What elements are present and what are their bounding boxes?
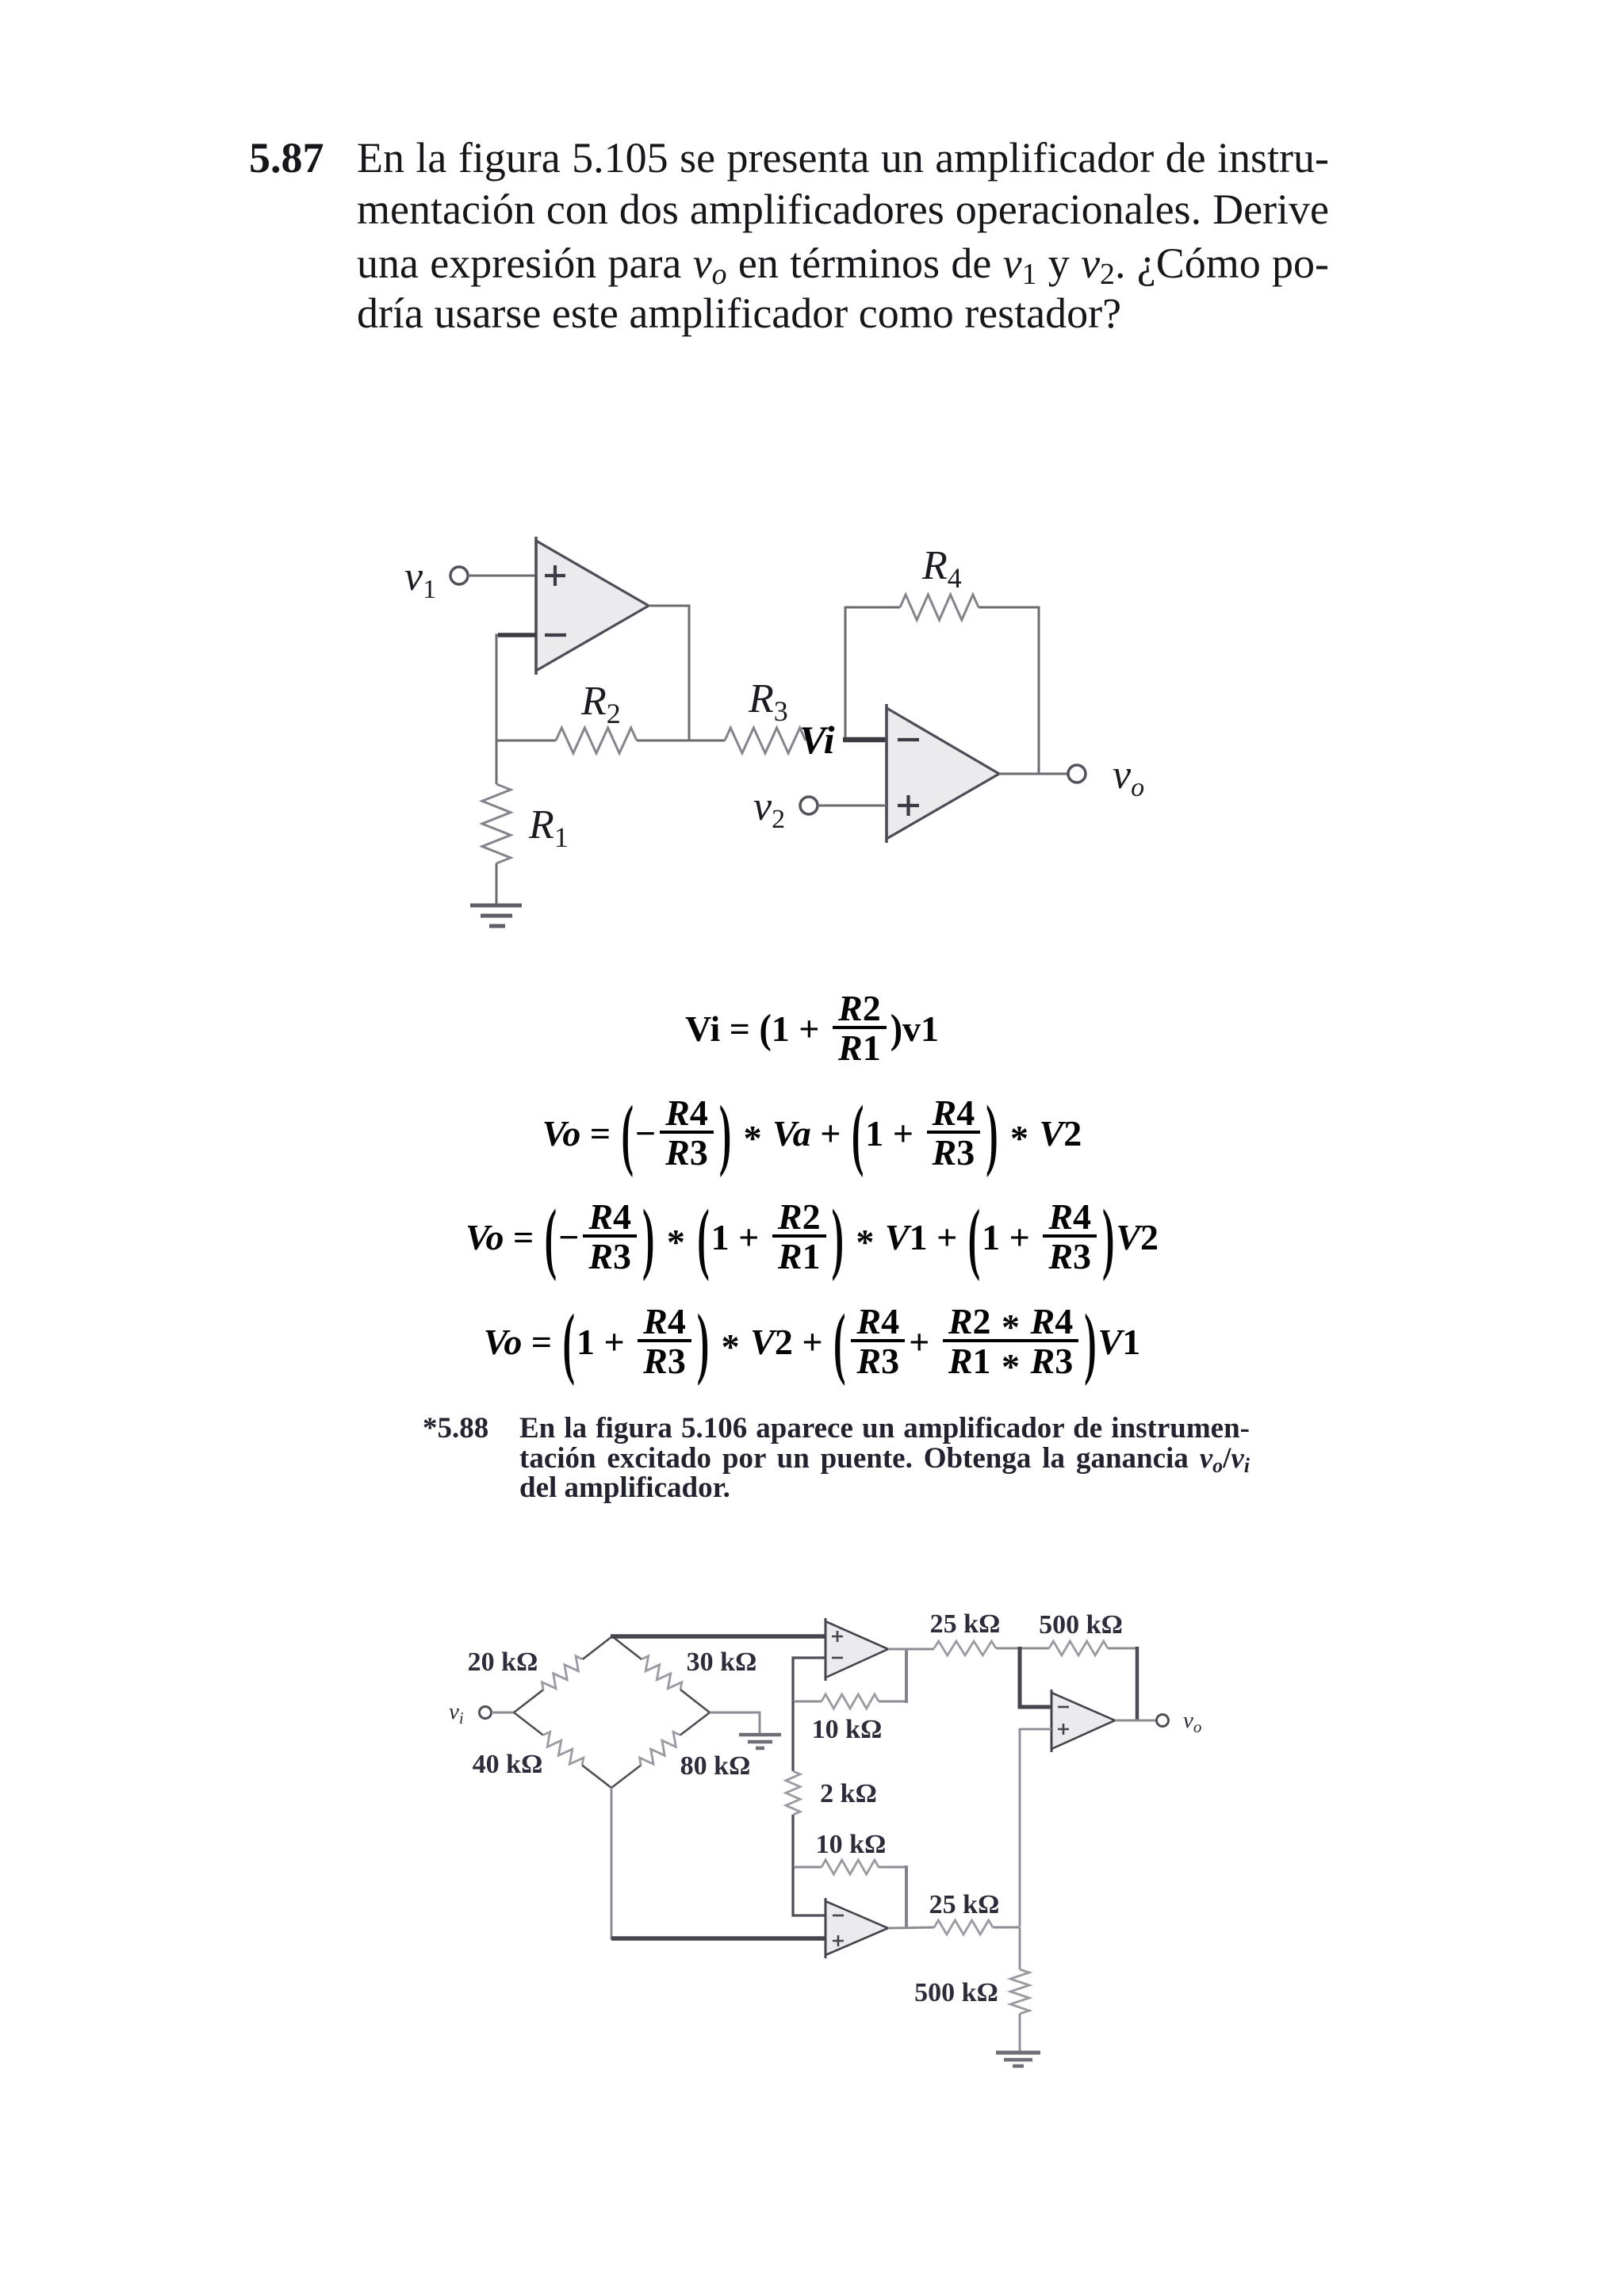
node A junction wire to R2: [496, 740, 556, 742]
vertical up to op A output: [905, 1649, 908, 1703]
wire rail below 2k: [791, 1815, 794, 1867]
wire rail to 10k feedback 1: [793, 1701, 822, 1703]
wire R4 to U2 output node: [979, 607, 1039, 774]
svg-text:R4: R4: [921, 543, 962, 594]
svg-text:10 kΩ: 10 kΩ: [816, 1830, 887, 1859]
svg-text:vo: vo: [1113, 752, 1144, 802]
wire bridge bottom node down: [611, 1788, 825, 1938]
svg-text:25 kΩ: 25 kΩ: [930, 1609, 1001, 1639]
equation 1: Vi = (1 + R2/R1)v1: [0, 995, 1624, 1062]
resistor R2: [556, 728, 637, 753]
node vo output terminal 2: [1157, 1715, 1169, 1727]
resistor 25k bottom: [934, 1920, 993, 1934]
resistor 500k bottom vertical: [1010, 1969, 1029, 2014]
svg-text:2 kΩ: 2 kΩ: [820, 1779, 877, 1808]
wire 25k to 500k with junction node C: [996, 1647, 1049, 1650]
wire rail 2k section: [791, 1701, 794, 1771]
svg-text:vi: vi: [449, 1699, 464, 1728]
resistor 40k bridge arm + wires: [514, 1712, 611, 1788]
node vo output terminal: [1068, 765, 1086, 783]
wire 500k down to op-amp C output: [1108, 1647, 1137, 1650]
resistor 500k top: [1049, 1641, 1108, 1655]
resistor 10k feedback 1: [822, 1694, 879, 1709]
resistor 10k 2: [822, 1860, 879, 1874]
resistor 25k top: [934, 1641, 996, 1655]
wire op-amp C output to vo: [1115, 1720, 1155, 1722]
wire op-amp A - input to left rail: [793, 1658, 825, 1701]
wire rail to 10k 2: [793, 1866, 822, 1869]
wire node C down to op-amp C - input (thick): [1020, 1647, 1051, 1707]
thick wire into op-amp B + input: [611, 1936, 825, 1941]
svg-text:v1: v1: [404, 554, 436, 604]
wire op-amp C + input to long rail down: [1020, 1729, 1051, 1927]
wire R1 to ground: [496, 863, 498, 905]
wire 500k 2 to ground: [1019, 2014, 1021, 2051]
svg-text:R1: R1: [528, 802, 569, 853]
wire R2 to node B: [637, 740, 689, 742]
svg-text:R3: R3: [748, 676, 788, 727]
ground symbol G3: [996, 2053, 1040, 2066]
resistor 80k bridge arm + wires: [611, 1712, 710, 1788]
svg-text:v2: v2: [753, 784, 785, 834]
node v2 input terminal: [800, 797, 818, 814]
wire node A down to R1: [496, 740, 498, 784]
resistor R3: [725, 728, 806, 753]
wire 25k 2 to node D: [993, 1927, 1020, 1929]
resistor R4: [900, 595, 979, 620]
wire op-amp A output to 25k: [888, 1648, 934, 1651]
wire 10k fb1 right up to op-amp A output: [879, 1701, 908, 1703]
wire node Vi to U2 - input (thick): [843, 737, 887, 743]
wire U2 output to vo terminal: [999, 773, 1068, 775]
svg-text:R2: R2: [580, 679, 621, 729]
op-amp A: [825, 1618, 888, 1681]
vertical down to op B output: [905, 1865, 908, 1927]
svg-text:20 kΩ: 20 kΩ: [468, 1647, 538, 1677]
resistor R1: [482, 784, 511, 863]
wire U1 output down to node B: [649, 606, 689, 740]
wire bridge right node to ground: [710, 1712, 760, 1733]
dark vertical from 500k to op-amp C output: [1136, 1647, 1139, 1720]
op-amp U2: [887, 704, 999, 843]
resistor 30k bridge arm + wires: [612, 1636, 710, 1712]
op-amp U1: [536, 537, 649, 675]
wire v1 to op-amp U1 + input: [468, 575, 536, 577]
resistor 2k: [786, 1771, 800, 1815]
wire node B to R3: [689, 740, 725, 742]
node v1 input terminal: [450, 567, 468, 584]
wire Vi node up to R4 feedback: [845, 607, 900, 737]
svg-text:vo: vo: [1183, 1708, 1201, 1736]
svg-text:40 kΩ: 40 kΩ: [473, 1750, 543, 1779]
wire bridge top node to op-amp A + input (thick): [611, 1634, 825, 1639]
ground symbol G1: [470, 905, 522, 926]
wire vi to bridge left node: [492, 1712, 514, 1714]
svg-text:500 kΩ: 500 kΩ: [914, 1978, 998, 2007]
svg-text:80 kΩ: 80 kΩ: [680, 1751, 751, 1781]
wire op-amp B output to 25k 2: [888, 1927, 934, 1928]
equation 3: [0, 1203, 1624, 1270]
wire v2 to U2 + input: [818, 805, 887, 807]
op-amp B: [825, 1898, 888, 1958]
thick stub into U1 - input: [498, 633, 536, 637]
wire U1 - input feedback to node A: [496, 635, 536, 740]
wire node D down to 500k 2: [1019, 1927, 1021, 1969]
ground symbol G2: [739, 1735, 781, 1748]
svg-text:25 kΩ: 25 kΩ: [929, 1890, 1000, 1919]
svg-text:500 kΩ: 500 kΩ: [1039, 1610, 1123, 1640]
node vi input terminal: [480, 1707, 492, 1719]
op-amp C: [1051, 1689, 1115, 1752]
wire rail down to op-amp B - input: [793, 1867, 825, 1915]
equation 2: Vo = (-R4/R3)*Va + (1+R4/R3)*V2: [0, 1100, 1624, 1166]
svg-text:10 kΩ: 10 kΩ: [812, 1715, 883, 1744]
resistor 20k bridge arm + wires: [514, 1636, 612, 1712]
wire 10k 2 down to op-amp B output: [879, 1866, 908, 1869]
svg-text:30 kΩ: 30 kΩ: [687, 1647, 757, 1677]
svg-text:Vi: Vi: [799, 717, 835, 762]
equation 4: [0, 1308, 1624, 1375]
